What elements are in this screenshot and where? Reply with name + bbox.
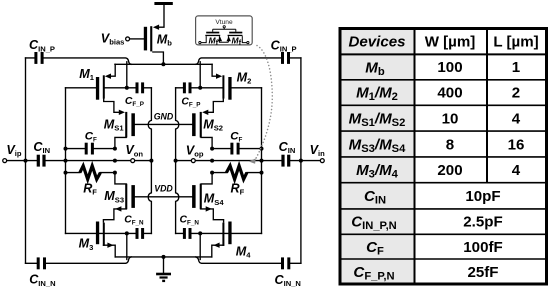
wire right outer vertical (300, 58, 302, 263)
wire MS2 drain (201, 137, 212, 148)
svg-text:8: 8 (446, 136, 454, 153)
wire M2 gate (231, 87, 261, 89)
wire gate column left (65, 88, 67, 234)
wire top center (115, 63, 212, 65)
wire CF left (66, 148, 115, 150)
wire gate column right (261, 88, 263, 234)
resistor RF left (80, 166, 101, 180)
svg-text:16: 16 (508, 136, 525, 153)
transistor Mf left (206, 32, 219, 34)
svg-text:L [µm]: L [µm] (493, 34, 538, 51)
table grey column cells (341, 30, 414, 283)
wire main input left (7, 160, 115, 162)
svg-text:4: 4 (512, 162, 521, 179)
wire M3 drain to MS3 (103, 209, 126, 222)
svg-text:100: 100 (437, 59, 462, 76)
wire M3 gate (66, 232, 127, 234)
svg-text:Mf: Mf (232, 35, 242, 47)
wire M1 gate (66, 87, 96, 89)
svg-text:W [µm]: W [µm] (425, 34, 476, 51)
wire MS3 drain (115, 173, 126, 184)
wire CFN left (127, 233, 152, 259)
svg-text:400: 400 (437, 85, 462, 102)
wire GND gate rail (135, 123, 192, 125)
capacitor CF_N right (183, 228, 192, 239)
svg-text:2: 2 (512, 85, 520, 102)
wire M4 gate (200, 232, 261, 234)
capacitor CIN_P right (281, 52, 290, 64)
wire top outer left (26, 58, 132, 64)
wire M2 drain to MS2 (208, 99, 223, 113)
wire top outer right (196, 58, 301, 64)
wire M2 source (212, 64, 217, 76)
transistor M2 (216, 74, 232, 100)
capacitor CF left (85, 143, 94, 155)
svg-text:10pF: 10pF (465, 188, 500, 205)
capacitor CIN left (37, 155, 46, 167)
wire CFP left (104, 62, 151, 88)
wire M4 source (212, 245, 224, 257)
wire CF right (212, 148, 261, 150)
svg-text:25fF: 25fF (467, 264, 498, 281)
capacitor CIN right (281, 155, 290, 167)
wire RF left (66, 172, 115, 174)
wire left outer vertical (25, 58, 27, 263)
wire CFN right (176, 233, 201, 259)
wire main Vop to node (176, 160, 213, 162)
transistor M1 (96, 74, 111, 100)
wire main input right (212, 160, 320, 162)
wire bottom outer right (196, 257, 301, 263)
svg-text:GND: GND (154, 111, 174, 121)
table grid (340, 29, 547, 285)
wire bottom center (115, 256, 212, 258)
svg-text:2.5pF: 2.5pF (463, 214, 502, 231)
terminal circles (3, 37, 324, 163)
capacitor CF_N left (136, 228, 145, 239)
svg-text:200: 200 (437, 162, 462, 179)
capacitor CIN_N right (281, 257, 290, 269)
svg-text:100fF: 100fF (463, 239, 502, 256)
wire MS1 drain (115, 137, 126, 148)
svg-text:Mf: Mf (209, 35, 219, 47)
wire M4 drain to MS4 (201, 209, 224, 222)
svg-text:VDD: VDD (154, 184, 173, 194)
wire M1 source (110, 64, 116, 76)
transistor Mf right (229, 32, 242, 34)
transistor M4 (213, 222, 231, 248)
wire Mb gate (130, 38, 144, 40)
capacitor CF right (230, 143, 239, 155)
svg-text:M1/M2: M1/M2 (356, 85, 398, 104)
wire VDD gate rail (135, 196, 192, 198)
capacitor CF_P right (183, 82, 192, 93)
ground stub (163, 257, 165, 273)
wire CFP right (176, 62, 223, 88)
capacitor CIN_N left (37, 257, 46, 269)
ground (156, 273, 171, 282)
wire RF right (212, 172, 261, 174)
transistor M3 (96, 222, 114, 248)
transistor MS4 (192, 184, 212, 212)
wire M1 drain to MS1 (104, 99, 119, 113)
wire main Von to node (115, 160, 151, 162)
wire inner column left with hops (148, 88, 151, 234)
wire M3 source (104, 245, 116, 257)
transistor MS3 (115, 184, 135, 212)
transistor MS2 (192, 110, 208, 138)
transistor MS1 (119, 110, 135, 138)
dotted curve arrowhead (249, 159, 256, 164)
wire Mb source drain (153, 5, 164, 64)
capacitor CIN_P left (34, 52, 43, 64)
transistor Mb (144, 25, 159, 52)
capacitor CF_P left (136, 82, 145, 93)
table white value area (414, 30, 546, 283)
wire bottom outer left (26, 257, 132, 263)
wire inner column right with hops (176, 88, 179, 234)
Vtune box (196, 16, 253, 47)
wire MS4 drain (201, 173, 212, 184)
resistor RF right (226, 166, 247, 180)
svg-text:4: 4 (512, 111, 521, 128)
svg-text:1: 1 (512, 59, 520, 76)
svg-text:10: 10 (442, 111, 459, 128)
svg-text:Devices: Devices (348, 34, 405, 51)
VDD top bar (154, 2, 172, 5)
dotted tuning curve (256, 46, 272, 159)
svg-text:Vtune: Vtune (215, 19, 233, 26)
